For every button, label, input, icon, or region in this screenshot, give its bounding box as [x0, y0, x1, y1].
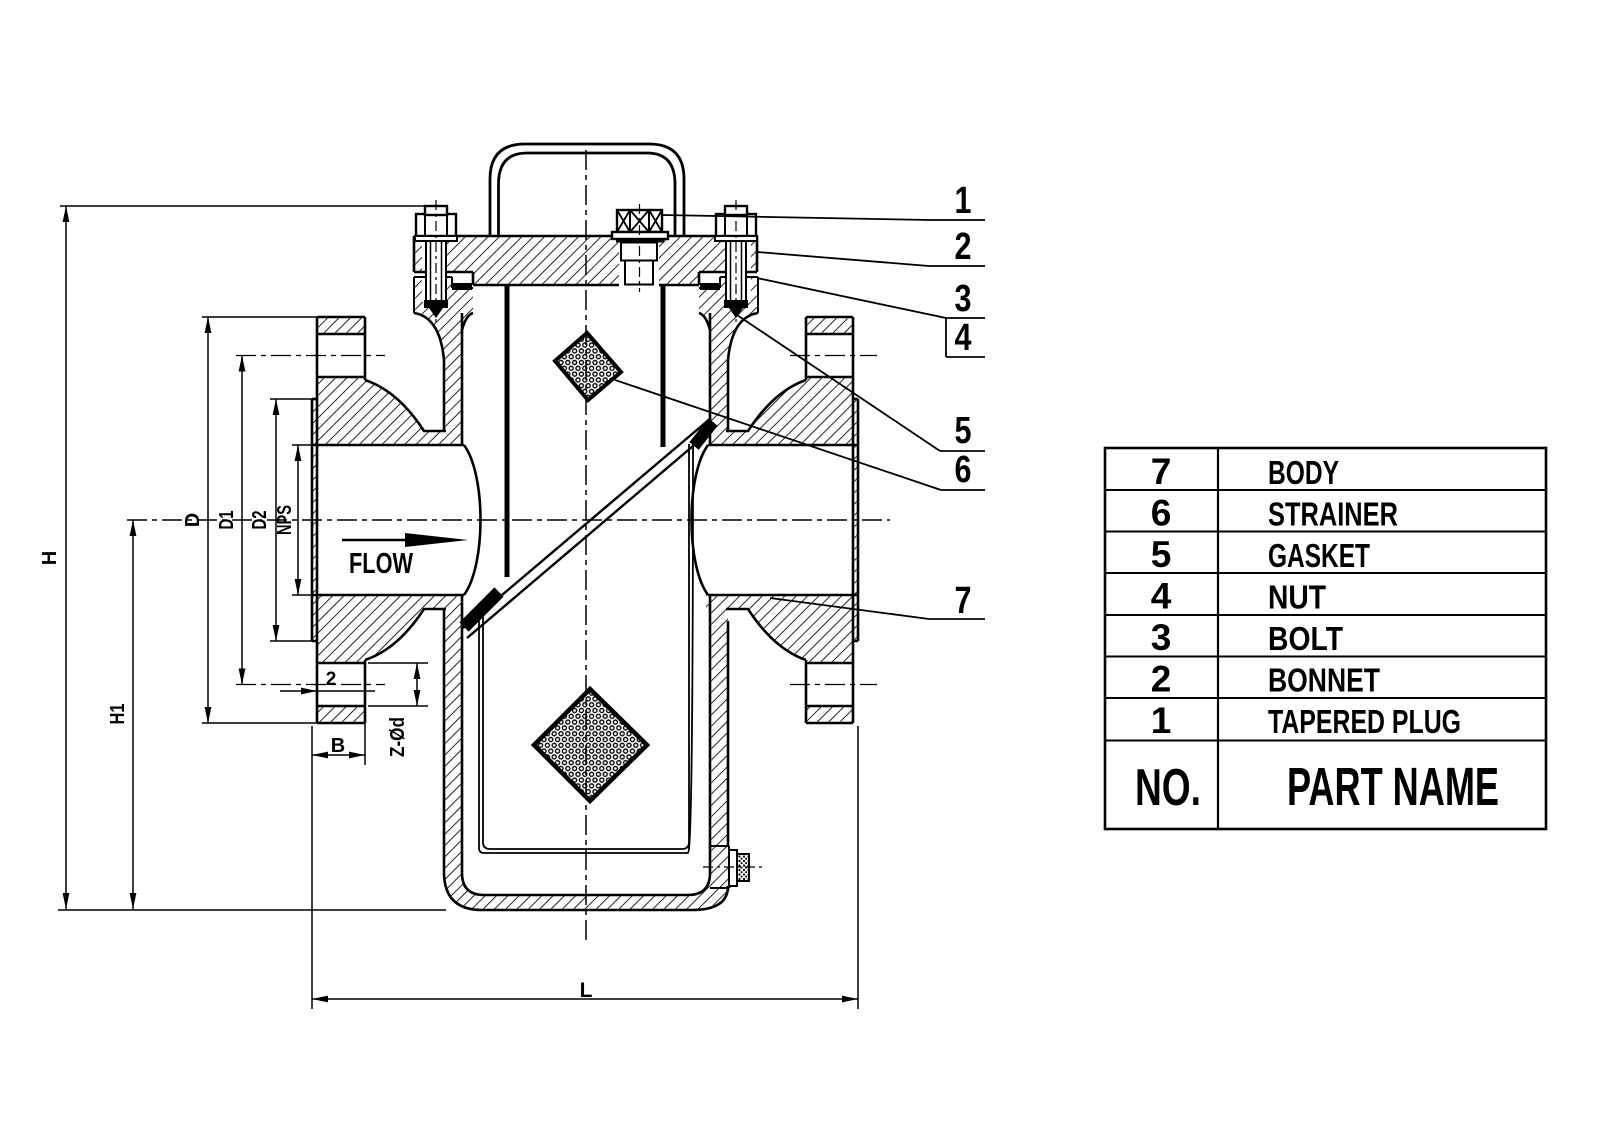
handle outer — [490, 144, 684, 236]
bonnet 2: lower boss — [473, 272, 699, 285]
washer right — [715, 236, 757, 241]
centerline bolt hole left top — [236, 355, 385, 357]
centerline horizontal main — [127, 519, 890, 521]
left flange outline — [312, 317, 365, 723]
body 7: left flange plate lower — [317, 595, 365, 663]
body 7: left pipe top wall — [420, 431, 463, 445]
extension line bottom H — [58, 909, 446, 911]
right hub curves — [726, 380, 806, 660]
table row line 3 — [1105, 572, 1546, 574]
body 7: left chamber wall lower — [444, 609, 462, 875]
table row line 1 — [1105, 489, 1546, 491]
centerline bolt right — [735, 200, 737, 326]
plug collar — [612, 232, 668, 239]
strainer screen diamond top — [555, 333, 621, 400]
tapered plug 1 head — [617, 210, 662, 232]
left chamber arc — [464, 445, 481, 595]
svg-text:BODY: BODY — [1268, 454, 1339, 491]
left neck curve — [414, 313, 473, 360]
centerline drain plug — [703, 866, 765, 868]
svg-text:D2: D2 — [249, 511, 271, 530]
bonnet 2: main plate — [414, 236, 757, 272]
table row line 4 — [1105, 614, 1546, 616]
body 7: bottom cap band — [444, 840, 728, 910]
centerline bolt left — [435, 200, 437, 326]
strainer basket outer wall — [479, 441, 693, 853]
svg-text:5: 5 — [1151, 534, 1172, 575]
table row line 5 — [1105, 656, 1546, 658]
svg-text:D1: D1 — [216, 511, 238, 530]
table column divider — [1217, 448, 1219, 829]
strainer seat diagonal rim line 2 — [467, 429, 713, 638]
leader 2 — [757, 252, 929, 266]
svg-text:B: B — [331, 735, 345, 757]
centerline bolt hole right bottom — [790, 684, 877, 686]
centerline plug — [639, 204, 641, 292]
plug hole (white) — [619, 236, 659, 285]
right bore lines — [708, 444, 858, 447]
svg-text:3: 3 — [1151, 617, 1172, 658]
strainer sleeve left thick line — [505, 285, 510, 577]
svg-text:2: 2 — [955, 226, 972, 268]
dim NPS — [297, 445, 299, 595]
svg-text:Z-Ød: Z-Ød — [387, 717, 409, 757]
plug shank — [625, 261, 653, 285]
extension line B — [364, 708, 366, 765]
svg-text:3: 3 — [955, 278, 972, 320]
body 7: right neck — [699, 313, 758, 431]
leader 1 — [663, 215, 929, 220]
drain plug head — [737, 854, 749, 881]
svg-text:6: 6 — [955, 449, 972, 491]
bolt 3 stud right — [726, 236, 746, 302]
left wall edges — [444, 313, 462, 873]
body 7: right pipe top wall — [706, 431, 752, 445]
bottom cap outline — [444, 872, 728, 910]
dim D1 — [241, 356, 243, 685]
table row line 2 — [1105, 531, 1546, 533]
svg-text:PART NAME: PART NAME — [1287, 757, 1499, 817]
table row line 7 — [1105, 740, 1546, 742]
right neck curve — [699, 313, 758, 360]
svg-text:7: 7 — [955, 580, 972, 622]
body 7: right hub upper — [748, 377, 806, 445]
leader 3/4 box — [757, 278, 946, 318]
bolt 3 stud left — [426, 236, 446, 302]
right flange outline — [806, 317, 858, 723]
svg-text:6: 6 — [1151, 493, 1172, 534]
svg-text:7: 7 — [1151, 451, 1172, 492]
svg-text:TAPERED PLUG: TAPERED PLUG — [1268, 703, 1461, 740]
strainer sleeve right thick line — [661, 285, 666, 447]
dim L — [312, 998, 858, 1000]
flow arrow — [342, 539, 420, 541]
table row line 6 — [1105, 697, 1546, 699]
body 7: left pipe bottom wall — [420, 595, 463, 609]
parts table frame — [1105, 448, 1546, 829]
strainer screen diamond bottom — [534, 689, 647, 801]
bolt foot left (black) — [424, 300, 448, 308]
drain boss outline — [710, 846, 729, 888]
extension line L right — [857, 726, 859, 1009]
svg-text:4: 4 — [955, 317, 972, 359]
centerline bolt hole left bottom — [236, 684, 385, 686]
body 7: right hub lower — [748, 595, 806, 663]
svg-text:FLOW: FLOW — [349, 548, 413, 580]
svg-text:NUT: NUT — [1268, 579, 1326, 616]
svg-text:D: D — [182, 513, 204, 527]
nut 4 left — [416, 214, 456, 236]
plug shadow band — [616, 239, 664, 243]
bolt foot right (black) — [724, 300, 748, 308]
leader 5 — [737, 315, 940, 451]
body 7: right flange plate lower — [806, 595, 853, 663]
right neck edges — [727, 360, 730, 431]
dim H — [65, 206, 67, 909]
svg-text:5: 5 — [955, 410, 972, 452]
leader 6 — [615, 380, 941, 490]
body 7: right pipe bottom wall — [706, 595, 752, 609]
plug hex body — [621, 243, 657, 261]
svg-text:GASKET: GASKET — [1268, 537, 1370, 574]
dim D — [207, 317, 209, 723]
svg-text:BONNET: BONNET — [1268, 662, 1380, 699]
right wall edges — [710, 313, 728, 890]
body 7: top flange ring left — [414, 277, 452, 313]
svg-text:2: 2 — [1151, 659, 1172, 700]
body 7: top flange ring right — [699, 288, 720, 313]
svg-text:1: 1 — [1151, 700, 1172, 741]
nut 4 right — [716, 214, 756, 236]
body 7: drain boss — [710, 846, 731, 888]
gasket 5 right — [700, 283, 720, 290]
bolt hole left (white) — [422, 236, 446, 302]
leader 7 — [770, 598, 929, 619]
bolt hole right (white) — [727, 236, 751, 302]
body 7: left flange plate upper — [317, 377, 365, 445]
dim D2 — [275, 399, 277, 641]
body 7: right flange plate top rim — [806, 317, 853, 334]
svg-text:NO.: NO. — [1135, 759, 1201, 817]
strainer basket inner wall — [483, 444, 689, 849]
gasket 5 left — [452, 283, 472, 290]
centerline vertical main — [585, 150, 587, 940]
dim H1 — [132, 520, 134, 909]
right chamber arc — [692, 445, 709, 595]
handle inner — [499, 153, 676, 236]
body 7: right chamber wall lower — [710, 609, 728, 846]
washer left — [415, 236, 457, 241]
body 7: left neck — [414, 313, 473, 431]
svg-text:STRAINER: STRAINER — [1268, 496, 1398, 533]
strainer seat diagonal rim line 1 — [463, 418, 711, 628]
body 7: right raised face strip — [853, 399, 858, 641]
svg-text:H: H — [39, 551, 61, 565]
body 7: right flange plate upper — [806, 377, 853, 445]
dim Z-Od — [416, 663, 418, 706]
svg-text:BOLT: BOLT — [1268, 620, 1343, 657]
dim 2 (raised face) — [280, 690, 375, 692]
body 7: left flange plate bottom rim — [317, 706, 365, 723]
svg-text:NPS: NPS — [274, 505, 296, 535]
centerline bolt hole right top — [790, 355, 877, 357]
left bore lines — [312, 444, 464, 447]
top flange ring outline — [414, 277, 758, 313]
body 7: right flange plate bottom rim — [806, 706, 853, 723]
strainer seat wedge lower-left (black) — [464, 592, 499, 627]
body 7: left flange plate top rim — [317, 317, 365, 334]
body 7: left raised face strip — [312, 399, 317, 641]
svg-text:H1: H1 — [107, 704, 129, 725]
bonnet outline — [414, 236, 757, 285]
left hub curves — [365, 380, 446, 660]
body 7: left hub lower — [365, 595, 424, 663]
extension line L left — [311, 726, 313, 1009]
dim B — [312, 754, 365, 756]
drain plug washer — [729, 850, 737, 886]
body 7: left hub upper — [365, 377, 424, 445]
strainer seat wedge upper-right (black) — [694, 422, 713, 446]
extension line top H — [60, 205, 447, 207]
svg-text:2: 2 — [326, 669, 337, 690]
svg-text:4: 4 — [1151, 576, 1172, 617]
svg-text:1: 1 — [955, 180, 972, 222]
svg-text:L: L — [580, 979, 593, 1002]
